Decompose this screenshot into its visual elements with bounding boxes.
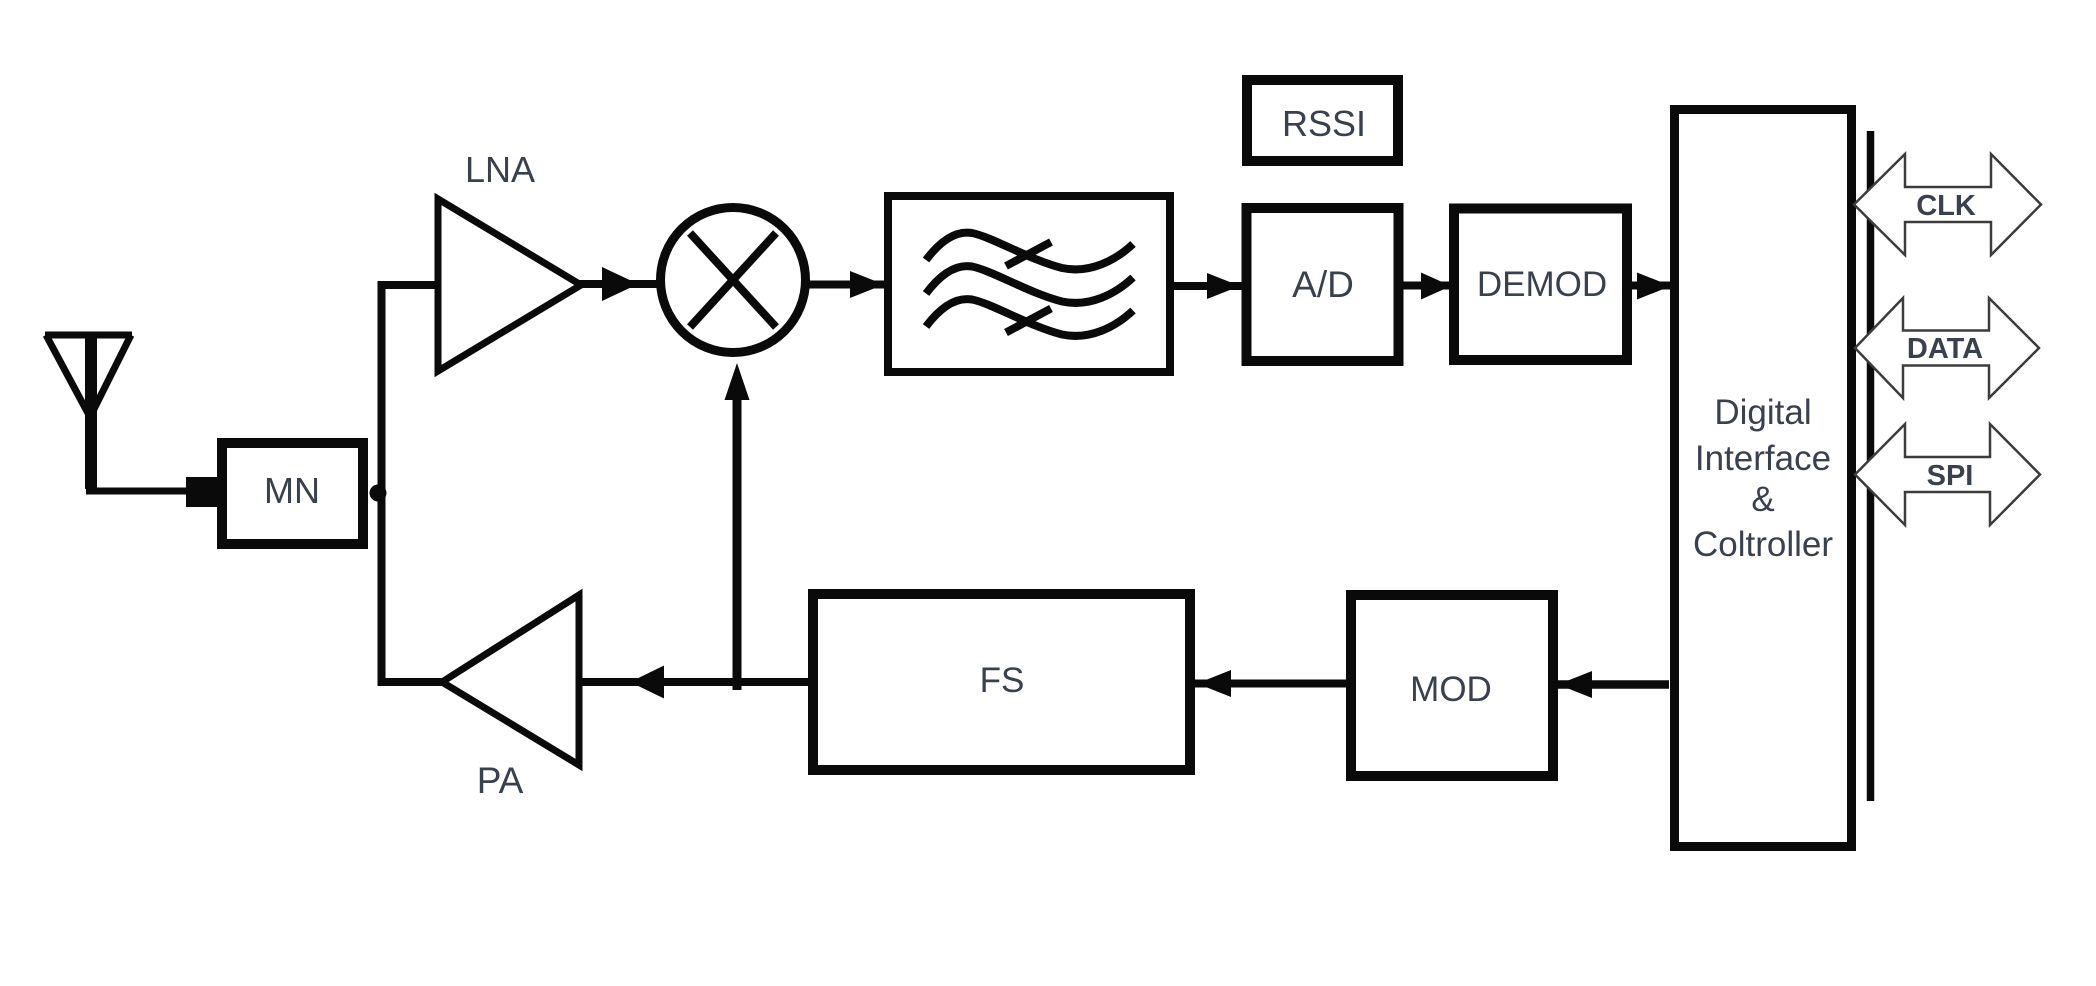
mixer U1 (661, 208, 806, 353)
wire LO up to mixer (733, 398, 742, 690)
box FS (813, 594, 1190, 770)
filter wave 2 (926, 266, 1133, 303)
filter wave 3 slash (1006, 309, 1051, 333)
box RSSI (1247, 80, 1398, 161)
arrowhead mixer to filter (850, 271, 884, 298)
wire MOD to FS (1195, 680, 1346, 688)
node junction at MN output (370, 485, 387, 502)
antenna feed stub (186, 477, 220, 507)
svg-text:MOD: MOD (1410, 670, 1492, 709)
wire filter to A/D (1173, 282, 1243, 290)
box A/D converter (1247, 208, 1399, 361)
wire A/D to DEMOD (1403, 282, 1452, 290)
svg-text:SPI: SPI (1927, 460, 1974, 492)
wire DEMOD to digital interface (1631, 282, 1675, 290)
port arrow DATA (1855, 298, 2039, 398)
arrowhead LNA to mixer (602, 267, 638, 301)
svg-text:DEMOD: DEMOD (1477, 265, 1607, 304)
arrowhead filter to A/D (1207, 273, 1240, 299)
arrowhead DEMOD to digital interface (1637, 273, 1671, 300)
port arrow CLK (1854, 154, 2041, 255)
svg-text:A/D: A/D (1292, 264, 1354, 305)
arrowhead FS to PA (630, 666, 664, 699)
arrowhead into MOD (1558, 671, 1592, 698)
box DEMOD (1454, 209, 1627, 361)
svg-text:DATA: DATA (1907, 333, 1983, 365)
wire FS to PA (579, 678, 808, 686)
amplifier LNA (438, 199, 581, 371)
filter wave 1 slash (1006, 242, 1051, 266)
antenna (45, 335, 132, 417)
svg-text:FS: FS (980, 661, 1025, 700)
svg-text:&: & (1751, 480, 1774, 519)
svg-text:RSSI: RSSI (1282, 103, 1366, 144)
arrowhead A/D to DEMOD (1421, 273, 1451, 300)
svg-text:Digital: Digital (1714, 393, 1811, 432)
box MOD (1351, 595, 1553, 776)
filter wave 3 (926, 299, 1133, 336)
wire LNA to mixer (578, 280, 658, 288)
svg-text:Interface: Interface (1695, 439, 1831, 478)
svg-text:CLK: CLK (1916, 190, 1976, 222)
wire digital interface to MOD (1558, 680, 1669, 689)
wire vertical to LNA (378, 281, 439, 289)
box MN (222, 443, 363, 544)
filter wave 1 (926, 233, 1133, 270)
antenna stem (85, 335, 97, 489)
filter box (888, 196, 1170, 372)
svg-text:Coltroller: Coltroller (1693, 525, 1833, 564)
arrowhead into FS (1197, 670, 1231, 697)
box U2 Digital Interface & Coltroller (1675, 110, 1852, 847)
arrowhead LO into mixer (725, 363, 750, 400)
svg-text:PA: PA (477, 760, 524, 801)
svg-text:MN: MN (264, 470, 320, 511)
wire MN junction vertical (382, 285, 443, 682)
wire antenna to MN (86, 488, 195, 495)
amplifier PA (442, 595, 579, 765)
wire mixer to filter (809, 281, 886, 289)
port arrow SPI (1855, 424, 2040, 525)
bus line right of digital interface (1867, 131, 1875, 801)
svg-text:LNA: LNA (465, 149, 535, 190)
